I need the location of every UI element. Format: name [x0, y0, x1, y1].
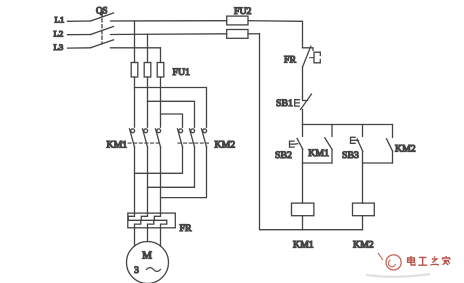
wire FU2a to control drop [248, 21, 303, 48]
relay FR heater element 1 [128, 213, 141, 228]
watermark swoosh [366, 274, 430, 277]
wire FR to SB1 [302, 67, 304, 96]
svg-text:M: M [142, 250, 152, 262]
wire KM2 pole2 join phase2 [148, 147, 195, 187]
wire KM2 pole1 join phase1 [135, 147, 183, 173]
wire KM1 pole3 down to FR [160, 147, 162, 213]
wire FR to motor 1 [134, 228, 136, 246]
watermark text 电工之家 drawn as strokes [408, 256, 451, 265]
contact KM1 aux top stub [331, 125, 333, 137]
relay FR NC contact link [310, 57, 314, 59]
svg-text:L3: L3 [54, 42, 64, 52]
button SB3 actuator E [351, 137, 359, 143]
svg-text:KM2: KM2 [215, 140, 236, 151]
switch QS linkage dashed [101, 13, 103, 44]
switch QS pole 2 blade [91, 27, 114, 35]
switch QS pole 3 blade [91, 40, 114, 48]
svg-text:FU2: FU2 [234, 6, 252, 17]
coil KM2 body [353, 203, 375, 216]
wire phase2 drop [147, 34, 149, 62]
svg-text:FR: FR [180, 223, 192, 234]
wire L1 lead [68, 20, 91, 22]
wire SB3 KM2 join [363, 162, 393, 164]
node L3 [54, 42, 91, 52]
fuse FU1a body [131, 63, 138, 78]
svg-text:KM2: KM2 [353, 240, 374, 251]
button SB1 actuator E [295, 100, 300, 106]
button SB3 blade [357, 139, 363, 152]
svg-text:KM2: KM2 [395, 144, 416, 155]
svg-text:KM1: KM1 [308, 148, 329, 159]
wire L1 bus to FU2 [111, 20, 227, 22]
wire coil KM2 bottom [362, 216, 364, 230]
svg-text:FU1: FU1 [173, 67, 191, 78]
contactor KM1 pole2 contact [143, 129, 148, 147]
wire to coil KM1 [302, 163, 304, 203]
wire left rail [260, 34, 363, 230]
wire phase3 cross to KM2 pole1 [161, 114, 183, 127]
button SB1 NC fixed [303, 97, 308, 101]
contact KM2 aux top stub [392, 125, 394, 138]
contactor KM1 pole3 contact [156, 129, 161, 147]
relay FR heater element 3 [154, 213, 167, 228]
motor tilde [147, 268, 161, 272]
watermark logo [378, 253, 401, 270]
wire FR to motor 2 [147, 228, 149, 242]
wire FU2b to left rail [248, 33, 260, 35]
wire L3 bus [111, 47, 161, 49]
wire SB2 KM1 join [303, 162, 333, 164]
contact KM2 aux blade [387, 139, 393, 151]
relay FR heater element 2 [141, 213, 154, 228]
wire KM1 pole1 down to FR [134, 147, 136, 213]
wire KM2 aux bottom [392, 151, 394, 163]
fuse FU2b body [227, 30, 248, 39]
wire phase3 to KM1 pole3 [160, 77, 162, 127]
wire phase3 drop [160, 48, 162, 63]
wire to coil KM2 [362, 163, 364, 203]
svg-text:3: 3 [134, 266, 139, 276]
contactor KM2 pole2 contact [190, 129, 195, 147]
motor M circle [127, 242, 169, 283]
wire L2 lead [68, 34, 91, 36]
contactor KM2 pole3 contact [202, 129, 207, 147]
contact KM1 aux blade [325, 138, 332, 150]
button SB1 NC blade [301, 94, 312, 110]
wire KM2 pole3 join phase3 [161, 147, 207, 198]
contactor KM1 pole1 contact [130, 129, 135, 147]
svg-text:FR: FR [284, 55, 296, 66]
svg-text:KM1: KM1 [107, 140, 128, 151]
relay FR NC contact blade [303, 46, 311, 67]
button SB2 top stub [302, 125, 304, 137]
wire phase1 drop [134, 21, 136, 63]
relay FR NC contact actuator [314, 52, 320, 63]
button SB3 top stub [362, 125, 364, 137]
wire phase2 cross to KM2 pole2 [148, 101, 195, 127]
button SB2 blade [297, 138, 303, 149]
svg-text:SB2: SB2 [275, 150, 292, 161]
wire phase2 to KM1 pole2 [147, 77, 149, 127]
node L1 [55, 15, 91, 25]
wire KM1 pole2 down to FR [147, 147, 149, 213]
svg-text:KM1: KM1 [293, 240, 314, 251]
svg-text:L1: L1 [55, 15, 65, 25]
button SB2 actuator E [290, 141, 298, 147]
wire KM1 aux bottom [331, 149, 333, 163]
svg-text:SB3: SB3 [342, 150, 359, 161]
contactor KM2 pole1 contact [178, 129, 183, 147]
wire L2 bus to FU2 [111, 33, 227, 36]
node L2 [54, 29, 91, 39]
relay FR NC contact fixed [303, 48, 314, 51]
wire phase1 to KM1 pole1 [134, 77, 136, 127]
svg-text:L2: L2 [54, 29, 64, 39]
wire branch rail [303, 124, 393, 126]
contactor KM2 linkage dashed [178, 142, 209, 144]
svg-text:SB1: SB1 [276, 98, 293, 109]
wire coil KM1 bottom [302, 216, 304, 230]
relay FR heater box [128, 213, 176, 228]
wire SB2 bottom [302, 149, 304, 163]
fuse FU2a body [227, 16, 248, 25]
wire FR to motor 3 [160, 228, 162, 246]
wire SB1 to rail [302, 110, 304, 125]
fuse FU1b body [144, 63, 151, 78]
wire L3 lead [68, 47, 91, 49]
wire SB3 bottom [362, 152, 364, 164]
switch QS pole 1 blade [91, 13, 114, 21]
fuse FU1c body [157, 63, 164, 78]
contactor KM1 linkage dashed [123, 142, 161, 144]
coil KM1 body [292, 203, 314, 216]
wire phase1 cross to KM2 pole3 [135, 88, 207, 128]
